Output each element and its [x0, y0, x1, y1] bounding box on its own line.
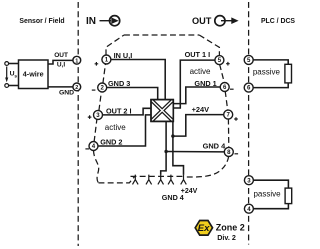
svg-text:OUT: OUT: [54, 52, 68, 59]
PLC terminal 4: [244, 204, 253, 213]
svg-text:Ex: Ex: [198, 223, 210, 234]
module terminal 1: [102, 55, 111, 64]
module terminal 6: [220, 83, 229, 92]
load resistor (passive input bottom): [285, 188, 292, 204]
transmitter box 4-wire: [19, 60, 49, 89]
wire OUT 2 I: terminal 3 to isolator left: [102, 108, 151, 115]
svg-text:IN U,I: IN U,I: [114, 51, 133, 60]
field terminal 2: [73, 83, 81, 91]
svg-text:5: 5: [247, 57, 251, 64]
svg-text:4: 4: [247, 206, 251, 213]
module terminal 3: [94, 110, 103, 119]
DIN rail contact 2: [146, 175, 152, 185]
svg-text:Div. 2: Div. 2: [217, 233, 236, 242]
wire GND 3: terminal 2 to isolator top: [106, 88, 157, 100]
label Us: [10, 71, 18, 80]
svg-text:5: 5: [218, 57, 222, 64]
PLC terminal 3: [244, 176, 253, 185]
junction dot +24V rail: [171, 134, 174, 137]
svg-text:GND 4: GND 4: [203, 142, 226, 151]
svg-text:2: 2: [101, 85, 105, 92]
svg-text:7: 7: [227, 112, 231, 119]
wire isolator bottom to rail contact (GND): [161, 121, 166, 174]
field terminal 1: [73, 56, 81, 64]
svg-text:3: 3: [247, 177, 251, 184]
load resistor (passive input top): [285, 64, 292, 83]
wire +24V: isolator right to terminal 7: [173, 115, 224, 137]
svg-text:GND 3: GND 3: [108, 79, 130, 88]
svg-text:Zone 2: Zone 2: [216, 222, 245, 232]
polarity - terminal 6: [230, 88, 234, 90]
svg-text:GND 2: GND 2: [100, 137, 122, 146]
svg-text:passive: passive: [253, 68, 281, 77]
wire OUT U,I to field terminal 1: [48, 60, 73, 64]
svg-text:PLC / DCS: PLC / DCS: [261, 18, 295, 25]
wire GND 1: terminal 6 down to bottom junction: [173, 87, 220, 104]
svg-text:OUT 2 I: OUT 2 I: [106, 107, 132, 116]
svg-text:6: 6: [223, 84, 227, 91]
DIN rail contact 1: [133, 175, 139, 185]
wire PLC passive loop top: [253, 60, 288, 88]
Ex hazardous area logo: [195, 221, 212, 236]
DIN rail contact 3: [158, 175, 164, 185]
PLC terminal 5: [244, 55, 253, 64]
svg-text:IN: IN: [86, 16, 96, 27]
polarity + terminal 7: [234, 117, 238, 121]
polarity - terminal 8: [235, 153, 239, 155]
module dashed outline: [94, 35, 229, 183]
polarity + terminal 5: [226, 62, 230, 66]
polarity + terminal 3: [88, 115, 92, 119]
svg-text:6: 6: [247, 85, 251, 92]
boundary: sensor/field dashed separator: [77, 2, 79, 246]
wire PLC passive loop bottom: [253, 180, 288, 209]
svg-text:GND 4: GND 4: [162, 193, 184, 202]
polarity + terminal 1: [95, 62, 99, 66]
svg-text:1: 1: [105, 57, 109, 64]
svg-text:1: 1: [75, 58, 78, 64]
svg-text:s: s: [14, 74, 17, 79]
svg-text:GND: GND: [59, 90, 74, 97]
boundary: PLC dashed separator: [248, 2, 250, 245]
polarity - terminal 2: [92, 89, 96, 91]
module terminal 7: [224, 110, 233, 119]
svg-text:active: active: [190, 67, 211, 76]
wire sensor + to 4-wire box: [9, 63, 19, 65]
wire isolator bottom to rail contact (+24V): [173, 121, 184, 174]
wire IN U,I: terminal 1 to isolator top: [111, 60, 166, 100]
svg-text:active: active: [105, 123, 126, 132]
PLC terminal 6: [244, 83, 253, 92]
module terminal 2: [98, 83, 107, 92]
OUT port icon: [192, 16, 239, 26]
wire sensor - to 4-wire box: [9, 85, 19, 87]
module terminal 8: [224, 147, 233, 156]
svg-text:passive: passive: [253, 190, 281, 199]
svg-text:4-wire: 4-wire: [23, 70, 44, 79]
DIN rail contact 4: [168, 175, 174, 185]
junction dot GND 4: [164, 150, 167, 153]
wire OUT 1 I: isolator right to terminal 5: [173, 60, 215, 108]
wire GND 2: terminal 4 to isolator left: [98, 115, 151, 146]
svg-text:2: 2: [75, 85, 78, 91]
polarity - terminal 4: [85, 148, 89, 150]
Us source arrow: [5, 67, 8, 83]
wire GND 4: junction to terminal 8: [166, 151, 225, 153]
module terminal 4: [89, 142, 98, 151]
terminal sensor -: [5, 84, 9, 88]
isolator symbol: [151, 100, 173, 122]
wire GND to field terminal 2: [48, 86, 73, 88]
svg-text:+24V: +24V: [192, 105, 210, 114]
module terminal 5: [215, 56, 224, 65]
svg-text:OUT: OUT: [192, 16, 212, 26]
IN port icon: [86, 16, 120, 27]
terminal sensor +: [5, 62, 9, 66]
DIN rail contact 5: [181, 175, 187, 185]
svg-text:GND 1: GND 1: [194, 79, 216, 88]
svg-text:OUT 1 I: OUT 1 I: [185, 50, 211, 59]
svg-text:U,I: U,I: [57, 62, 66, 69]
svg-text:Sensor / Field: Sensor / Field: [19, 18, 64, 25]
